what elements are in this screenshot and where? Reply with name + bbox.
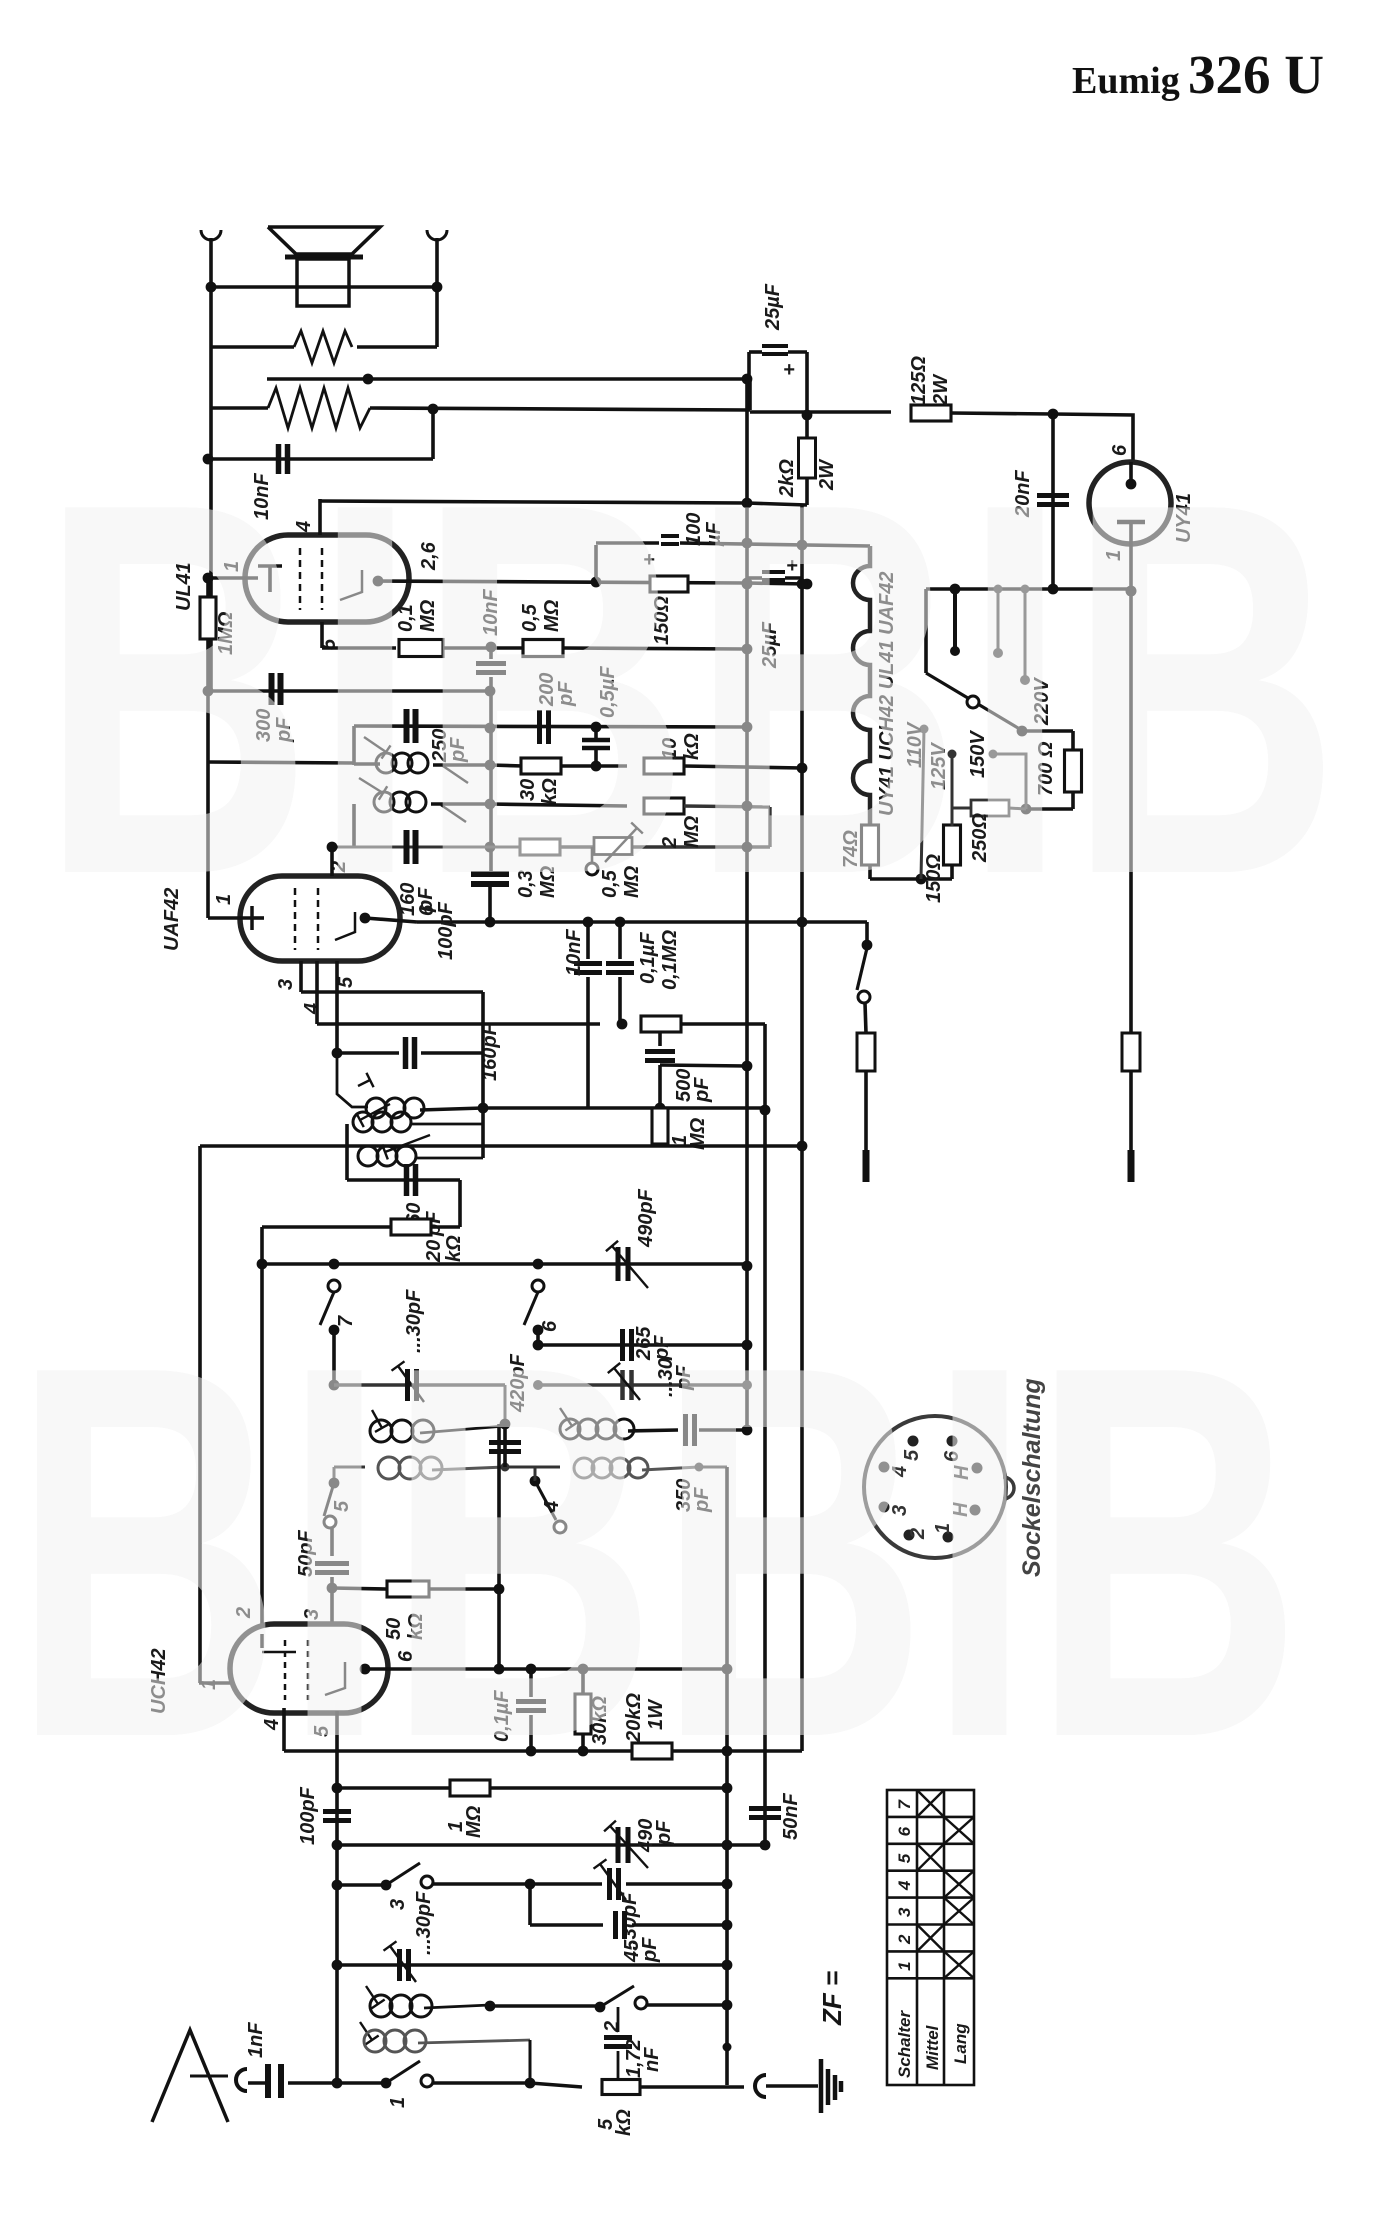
svg-text:1: 1: [895, 1961, 914, 1970]
svg-text:ZF =: ZF =: [817, 1971, 847, 2026]
svg-text:BIBBIB: BIBBIB: [12, 1256, 1302, 1848]
svg-text:...30pF: ...30pF: [413, 1891, 435, 1955]
svg-text:pF: pF: [639, 1937, 661, 1963]
svg-text:490pF: 490pF: [635, 1188, 657, 1248]
svg-text:2: 2: [895, 1934, 914, 1945]
svg-text:Schalter: Schalter: [895, 2010, 914, 2078]
svg-text:4: 4: [301, 1003, 323, 1015]
svg-text:3: 3: [387, 1899, 409, 1910]
svg-text:2: 2: [601, 2021, 623, 2033]
svg-text:kΩ: kΩ: [613, 2109, 635, 2136]
svg-text:Mittel: Mittel: [923, 2024, 942, 2070]
svg-text:nF: nF: [641, 2047, 663, 2072]
svg-text:326 U: 326 U: [1188, 44, 1324, 105]
svg-text:+: +: [783, 359, 795, 381]
svg-text:pF: pF: [691, 1077, 713, 1103]
svg-text:5: 5: [895, 1853, 914, 1863]
svg-text:1nF: 1nF: [245, 2022, 267, 2058]
svg-text:4: 4: [895, 1880, 914, 1891]
svg-text:Lang: Lang: [951, 2023, 970, 2064]
svg-text:3: 3: [895, 1907, 914, 1917]
svg-text:25µF: 25µF: [762, 283, 784, 331]
svg-text:Eumig: Eumig: [1072, 60, 1180, 102]
svg-text:BIBBIB: BIBBIB: [40, 393, 1340, 985]
svg-text:1: 1: [387, 2097, 409, 2108]
